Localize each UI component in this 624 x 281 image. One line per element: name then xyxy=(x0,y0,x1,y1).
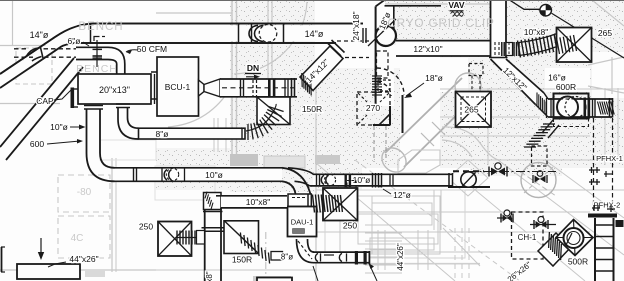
diffuser 270 dashed xyxy=(357,92,390,125)
top border line xyxy=(0,0,624,2)
duct diagonal lower-left xyxy=(0,58,83,160)
svg-text:500R: 500R xyxy=(568,257,588,267)
label 10x8 top xyxy=(524,27,548,37)
duct 12x10 xyxy=(396,41,491,56)
svg-text:DAU-1: DAU-1 xyxy=(291,218,314,227)
pipe rack xyxy=(588,205,624,281)
duct 10ø horizontal run xyxy=(115,167,283,182)
bench 44x26 with arrow xyxy=(17,238,80,279)
diffuser 265 left xyxy=(456,92,492,128)
label 6ø xyxy=(68,36,89,46)
svg-text:VAV: VAV xyxy=(448,0,465,10)
label 16ø xyxy=(548,73,566,83)
svg-text:250: 250 xyxy=(139,222,153,232)
label 50 CFM xyxy=(126,44,167,54)
flex stub to 250 mid xyxy=(313,195,344,214)
unit BCU-1 xyxy=(151,57,199,116)
duct from BCU-1 with joints xyxy=(199,78,298,98)
6ø drop riser with flanges xyxy=(93,37,106,68)
duct lower run from DAU xyxy=(313,251,369,265)
svg-text:BENCH: BENCH xyxy=(76,63,118,75)
svg-text:8"ø: 8"ø xyxy=(156,129,169,139)
label 44x26 vertical xyxy=(396,243,405,271)
svg-text:270: 270 xyxy=(366,103,380,113)
duct 12x12 diagonal xyxy=(491,59,549,117)
svg-text:24"x18": 24"x18" xyxy=(351,11,361,40)
svg-text:CRYO GRID CLIP: CRYO GRID CLIP xyxy=(387,16,494,30)
svg-text:8"ø: 8"ø xyxy=(281,253,293,262)
cap end xyxy=(71,88,79,109)
duct 10x8 run xyxy=(204,192,288,210)
svg-text:12"x10": 12"x10" xyxy=(413,44,442,54)
valve V2 inside pump circle xyxy=(533,171,547,183)
diffuser 250 mid with flex xyxy=(323,188,358,221)
label 250 mid xyxy=(343,221,357,231)
svg-text:50 CFM: 50 CFM xyxy=(137,44,167,54)
label 265 right xyxy=(598,28,612,38)
damper in 14ø duct xyxy=(249,25,277,43)
svg-text:14"ø: 14"ø xyxy=(30,30,49,40)
label 14ø left xyxy=(30,30,49,40)
svg-text:265: 265 xyxy=(598,28,612,38)
diffuser 250 left with flex xyxy=(158,222,205,257)
svg-text:10"ø: 10"ø xyxy=(50,122,68,132)
valve V3 at CH-1 xyxy=(497,210,513,223)
svg-text:10"ø: 10"ø xyxy=(205,170,223,180)
flex 8ø to plenum xyxy=(246,104,284,140)
leader lines xyxy=(313,263,377,281)
label VAV xyxy=(448,0,465,16)
svg-text:BCU-1: BCU-1 xyxy=(165,82,191,92)
duct 10ø hidden section with riser elbow xyxy=(448,171,490,187)
duct drop 10x8 vertical xyxy=(202,208,225,281)
duct 14"ø diagonal and top horizontal run xyxy=(0,24,363,89)
duct drop 8ø with elbow xyxy=(116,104,139,139)
PFHX-1 PFHX-2 risers xyxy=(589,118,623,210)
diffuser 500R xyxy=(556,220,593,267)
label 10ø drop xyxy=(50,122,85,132)
grey text BENCH upper xyxy=(78,21,123,33)
duct drop 10ø with elbow xyxy=(84,106,115,182)
duct 10ø continuing run xyxy=(288,168,453,190)
svg-text:250: 250 xyxy=(343,221,357,231)
label 600 xyxy=(30,139,83,149)
flex duct 10x8 xyxy=(518,32,576,58)
riser right vertical duct xyxy=(489,0,508,58)
svg-text:-80: -80 xyxy=(77,187,92,198)
svg-text:CH-1: CH-1 xyxy=(518,233,537,242)
top duct interior xyxy=(0,24,363,91)
riser drop dashed xyxy=(372,51,390,95)
grey text CRYO GRID CLIP xyxy=(387,16,494,30)
svg-text:12"ø: 12"ø xyxy=(393,190,411,200)
svg-text:20"x13": 20"x13" xyxy=(99,85,130,95)
svg-text:16"ø: 16"ø xyxy=(548,73,566,83)
plenum box 150R xyxy=(257,97,290,125)
svg-text:CAP: CAP xyxy=(36,96,54,106)
unit 600R fan box xyxy=(547,94,615,127)
unit DAU-1 xyxy=(288,207,317,237)
unit CH-1 xyxy=(512,212,544,259)
svg-text:PFHX-1: PFHX-1 xyxy=(596,154,623,163)
bench rect bottom middle xyxy=(257,278,292,281)
grey text BENCH lower xyxy=(76,63,118,75)
svg-text:10"x8": 10"x8" xyxy=(524,27,548,37)
plenum 150R lower with flex xyxy=(224,221,283,264)
label 600R xyxy=(556,82,576,92)
valve V1 on chilled line xyxy=(468,163,556,177)
svg-text:44"x26": 44"x26" xyxy=(396,243,405,271)
label 44x26 xyxy=(48,254,99,267)
svg-text:150R: 150R xyxy=(232,255,252,265)
svg-text:x8": x8" xyxy=(205,271,214,281)
valve V4 at CH-1 xyxy=(530,217,556,230)
duct 14x12 diagonal branch xyxy=(300,40,369,96)
benchmark symbol xyxy=(510,0,624,58)
svg-text:14"ø: 14"ø xyxy=(305,29,324,39)
flex from 600R xyxy=(524,120,559,166)
flex duct 26x26 to 500R xyxy=(506,232,571,281)
box 20x13 duct xyxy=(78,74,155,104)
label DN xyxy=(245,63,261,79)
svg-text:44"x26": 44"x26" xyxy=(69,254,98,264)
svg-text:BENCH: BENCH xyxy=(78,21,123,33)
svg-text:265: 265 xyxy=(464,105,478,115)
svg-text:600R: 600R xyxy=(556,82,576,92)
dashed drop to 265 diffuser xyxy=(469,64,483,92)
label CAP xyxy=(36,90,71,106)
left edge mark xyxy=(1,247,5,272)
svg-text:150R: 150R xyxy=(302,104,322,114)
elbow into DAU-1 xyxy=(282,168,311,207)
dashed elbow at riser base xyxy=(374,68,404,162)
label 250 left xyxy=(139,222,153,232)
duct 8ø horizontal xyxy=(139,128,246,139)
flex fitting xyxy=(506,42,519,56)
svg-text:600: 600 xyxy=(30,139,44,149)
svg-text:6"ø: 6"ø xyxy=(68,36,81,46)
svg-text:4C: 4C xyxy=(71,233,84,244)
svg-text:DN: DN xyxy=(247,63,259,73)
svg-text:10"ø: 10"ø xyxy=(353,175,371,185)
duct 6"ø branch with elbow xyxy=(14,47,125,76)
riser 24x18 with 18ø elbow xyxy=(351,0,441,110)
top duct joints xyxy=(91,24,284,44)
svg-text:10"x8": 10"x8" xyxy=(246,197,270,207)
diffuser 265 top right xyxy=(557,28,592,63)
label 18ø with arrow xyxy=(404,73,443,98)
label 150R lower xyxy=(232,255,252,265)
svg-text:18"ø: 18"ø xyxy=(425,73,443,83)
label 12ø xyxy=(378,186,411,200)
label 150R top xyxy=(302,104,322,114)
elbow DAU-1 to lower duct xyxy=(297,239,315,263)
label 14ø top xyxy=(305,29,324,39)
label 8ø small xyxy=(281,253,293,262)
